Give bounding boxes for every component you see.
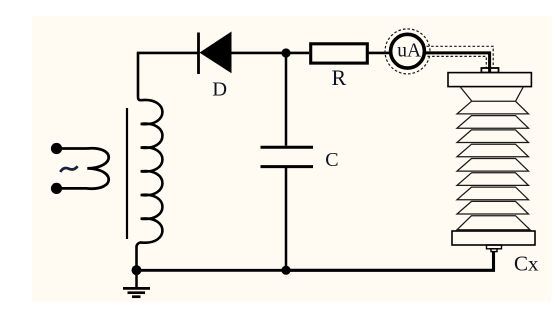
wire diode to node A [232, 52, 287, 55]
bushing shed 8 [457, 201, 529, 214]
bushing bottom pin block [487, 245, 502, 249]
bushing shed 4 [457, 144, 529, 157]
ground stem [135, 270, 138, 288]
svg-text:R: R [332, 65, 347, 90]
wire meter to bushing (screened cable core) [424, 53, 490, 72]
resistor R [311, 44, 368, 63]
bushing bottom pin stub [491, 249, 497, 252]
svg-text:C: C [325, 149, 338, 171]
bushing bottom flange [452, 231, 535, 245]
node B junction dot (capacitor bottom) [281, 266, 290, 275]
node A junction dot (top of capacitor branch) [281, 48, 290, 57]
wire ground bus left section [137, 269, 287, 272]
transformer core [126, 108, 128, 239]
AC input terminal dot bottom [51, 183, 62, 194]
bushing neck bowtie [460, 87, 523, 101]
meter shield dashed circle [385, 29, 430, 74]
ground junction dot [132, 265, 142, 275]
wire top-left horizontal (transformer to diode) [137, 52, 198, 55]
wire node A down to capacitor [285, 53, 288, 146]
bushing shed 9 [457, 216, 530, 230]
bushing top flange [448, 73, 531, 87]
svg-text:uA: uA [397, 41, 421, 62]
capacitor C top plate [261, 146, 314, 149]
AC input terminal dot top [51, 143, 62, 154]
ground bar 2 [128, 291, 146, 294]
wire bushing bottom to ground bus [286, 252, 494, 271]
diode D cathode bar [197, 33, 200, 75]
bushing shed 1 [457, 101, 529, 114]
ground bar 3 [132, 295, 141, 298]
ground bar 1 [123, 287, 150, 290]
bushing shed 5 [457, 159, 529, 172]
bushing shed 3 [457, 130, 529, 143]
bushing shed 7 [457, 187, 529, 200]
microammeter M1 body [391, 34, 425, 68]
bushing shed 6 [457, 173, 529, 186]
wire node A to resistor [286, 52, 309, 55]
bushing top terminal pin [481, 68, 498, 73]
cable shield dashed inner line [428, 56, 487, 67]
AC tilde symbol [60, 166, 77, 172]
wire capacitor to node B [285, 168, 288, 270]
transformer primary winding [60, 148, 109, 188]
diode D triangle [200, 32, 232, 74]
capacitor C bottom plate [261, 165, 314, 168]
wire resistor to meter [368, 52, 392, 55]
bushing shed 2 [457, 116, 529, 129]
svg-text:D: D [212, 78, 227, 100]
cable shield dashed outer line [427, 46, 494, 66]
svg-text:Cx: Cx [514, 252, 539, 276]
transformer secondary winding (with top lead from diode wire) [137, 53, 163, 270]
